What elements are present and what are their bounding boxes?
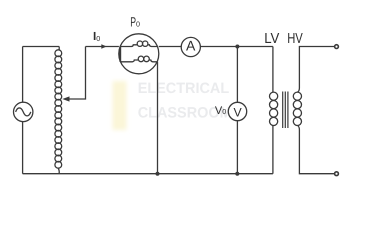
transformer LV winding — [270, 92, 278, 125]
wattmeter P0 — [119, 34, 159, 74]
wire HV bottom to terminal — [298, 126, 335, 174]
svg-text:ELECTRICAL: ELECTRICAL — [138, 80, 230, 97]
wire wattmeter pressure coil to bottom rail — [157, 62, 159, 174]
HV bottom terminal — [335, 172, 339, 176]
HV top terminal — [335, 45, 339, 49]
AC source G1 — [14, 102, 33, 121]
transformer core — [283, 92, 288, 129]
wire voltmeter branch bottom — [236, 121, 238, 174]
junction voltmeter at rail — [235, 172, 239, 176]
wire source top vertical — [22, 47, 24, 103]
current direction arrow I0 — [101, 44, 106, 49]
wire tap to wattmeter — [86, 46, 119, 48]
svg-text:V: V — [233, 106, 242, 120]
watermark yellow stripe — [113, 81, 127, 130]
wire ammeter to LV corner — [201, 46, 273, 48]
wire voltmeter branch top — [236, 47, 238, 103]
autotransformer T1 winding — [58, 47, 60, 51]
variac tap arrow — [68, 47, 86, 100]
wire LV primary top — [272, 47, 274, 93]
pressure coil (bottom chord) — [120, 60, 138, 62]
svg-text:A: A — [186, 38, 196, 54]
wire source bottom vertical — [22, 122, 24, 174]
current coil (top chord) — [120, 45, 137, 47]
svg-text:V0: V0 — [215, 105, 226, 117]
ammeter A — [181, 37, 200, 56]
transformer HV winding — [293, 92, 301, 125]
svg-text:LV: LV — [264, 31, 279, 47]
wire LV primary bottom — [272, 125, 274, 173]
svg-text:I0: I0 — [93, 30, 100, 43]
wire HV top to terminal — [298, 47, 335, 93]
junction wattmeter at rail — [156, 172, 160, 176]
internal left connector — [119, 47, 121, 62]
junction voltmeter tap — [235, 45, 239, 49]
voltmeter V — [228, 102, 246, 120]
wire wattmeter to ammeter — [159, 46, 182, 48]
bottom rail wire — [23, 173, 273, 175]
wire top-left horizontal — [23, 46, 60, 48]
svg-text:P0: P0 — [130, 14, 140, 29]
svg-text:HV: HV — [287, 31, 303, 47]
